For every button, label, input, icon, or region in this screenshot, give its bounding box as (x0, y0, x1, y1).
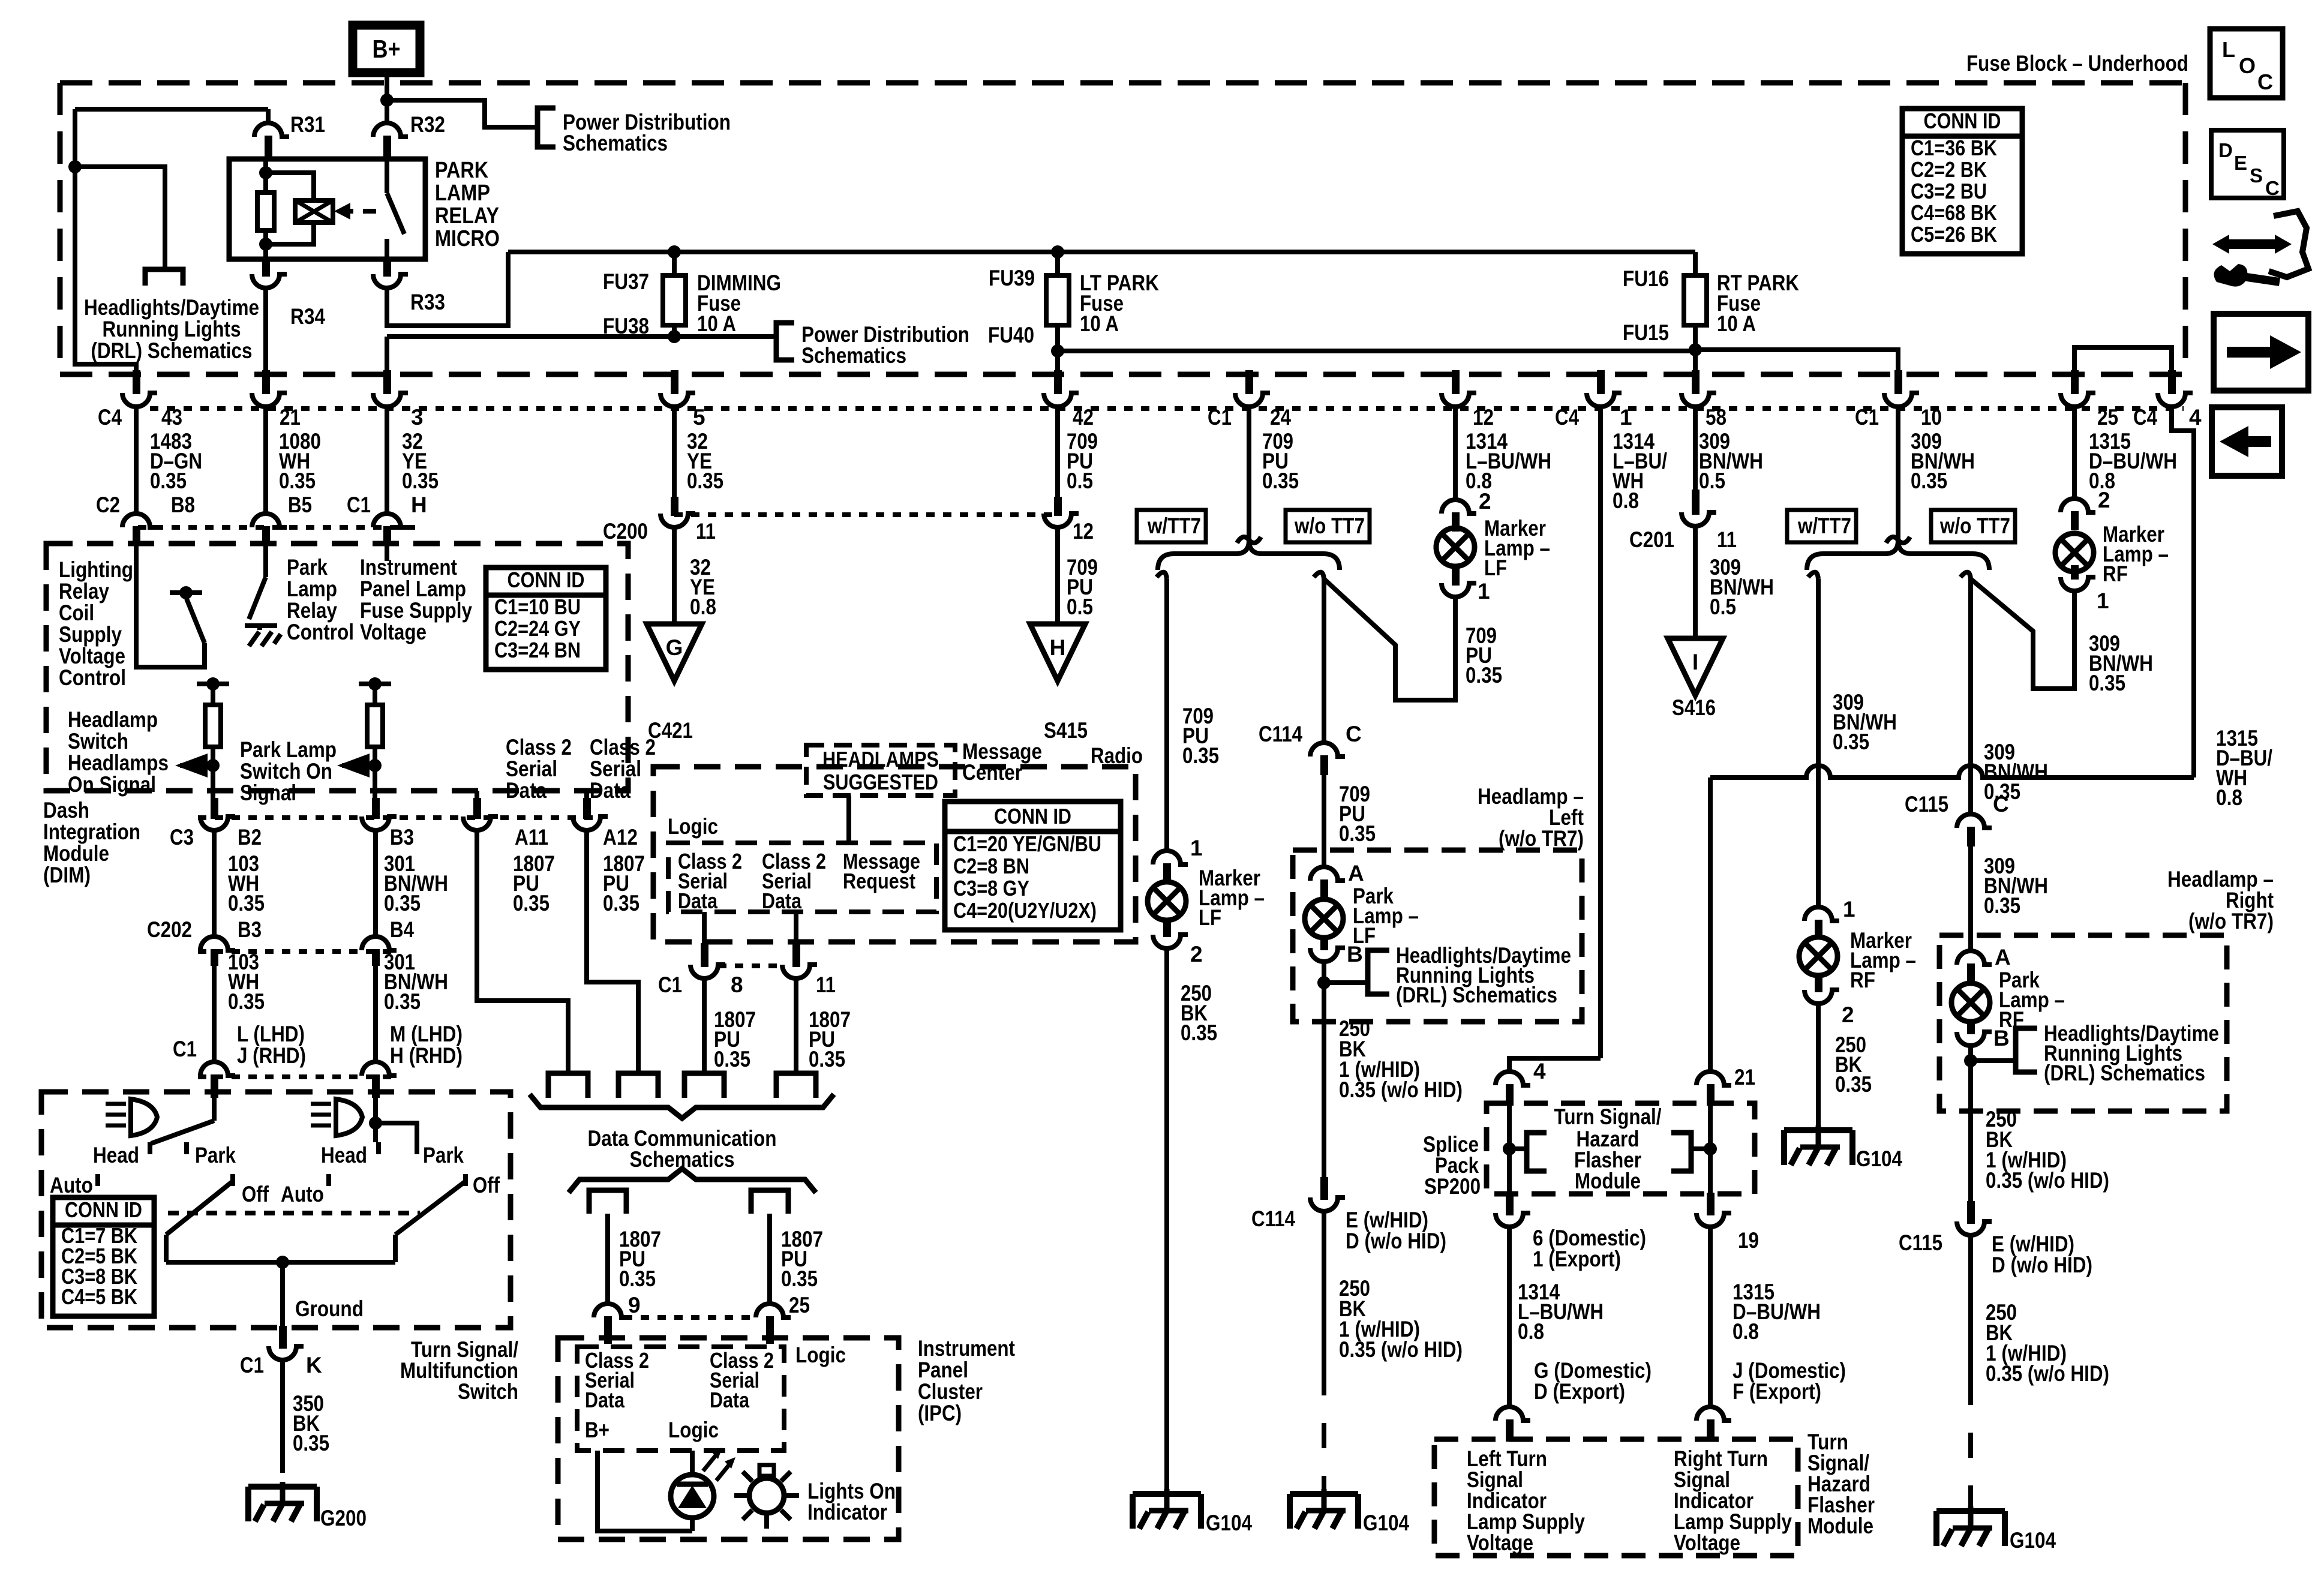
svg-text:2: 2 (1842, 1002, 1854, 1027)
contact park 1 (187, 1142, 236, 1167)
svg-text:B8: B8 (171, 493, 195, 517)
svg-text:19: 19 (1738, 1228, 1759, 1253)
label dimming fuse (697, 271, 781, 336)
branch hook woTT7 left (1314, 572, 1324, 579)
connector C115-E (1899, 1201, 1992, 1255)
connector dash c202-row (198, 949, 396, 954)
relay resistor (257, 159, 274, 259)
svg-text:Head: Head (321, 1143, 367, 1167)
wire FU38 output bus (387, 330, 776, 343)
svg-text:Headlamps: Headlamps (68, 751, 169, 775)
label woTT7 left (1286, 510, 1370, 542)
svg-text:Data: Data (678, 888, 718, 913)
svg-text:0.35 (w/o HID): 0.35 (w/o HID) (1339, 1337, 1463, 1362)
svg-text:Voltage: Voltage (59, 644, 125, 668)
svg-text:9: 9 (628, 1293, 641, 1317)
lamp marker rf top (2055, 488, 2169, 613)
label C2 B8 (96, 493, 195, 517)
svg-text:C4=5 BK: C4=5 BK (61, 1284, 137, 1309)
svg-text:Serial: Serial (590, 757, 641, 781)
fuse block output connector x1124 (660, 370, 695, 407)
svg-text:1: 1 (1190, 836, 1203, 860)
svg-text:C1=10 BU: C1=10 BU (494, 595, 581, 619)
wire rt park output down (1693, 350, 1698, 374)
connector 12 (1044, 497, 1079, 527)
svg-text:C: C (2257, 70, 2273, 94)
svg-text:B: B (1993, 1026, 2010, 1050)
power symbol B+ (353, 25, 420, 73)
label wTT7 left (1137, 510, 1206, 542)
svg-text:0.35: 0.35 (1262, 469, 1299, 493)
wire 1807 pu 25 (770, 1214, 823, 1317)
svg-text:H: H (1050, 635, 1066, 660)
icon box DESC (2211, 130, 2284, 199)
svg-text:C2=2 BK: C2=2 BK (1911, 157, 1987, 182)
headlamp icon 2 (311, 1099, 362, 1136)
connector C114-E (1251, 1177, 1345, 1231)
svg-text:Park: Park (195, 1143, 236, 1167)
off-page bracket power distribution (538, 108, 556, 147)
svg-text:3: 3 (411, 405, 424, 430)
svg-text:0.35: 0.35 (293, 1431, 329, 1455)
wire 250 bk right dashed (1968, 1380, 1973, 1511)
relay coil (266, 173, 350, 244)
svg-text:Panel: Panel (918, 1358, 968, 1382)
svg-text:LF: LF (1484, 556, 1507, 580)
connector marker rf 1 (1804, 897, 1855, 937)
label 21 (280, 405, 301, 430)
svg-text:Instrument: Instrument (360, 555, 457, 580)
fuse block output connector x1763 (1044, 370, 1079, 407)
svg-text:C3: C3 (170, 825, 194, 849)
connector ipc 25 (756, 1304, 791, 1344)
connector A11 (463, 798, 498, 830)
svg-text:Module: Module (43, 841, 109, 866)
wire woTT7 c115 right (1971, 579, 2048, 814)
label C200 11 (603, 519, 716, 544)
svg-text:0.35: 0.35 (809, 1047, 845, 1071)
svg-text:Lamp: Lamp (287, 577, 337, 601)
bracket ipc 25 (751, 1190, 788, 1214)
svg-text:L (LHD): L (LHD) (237, 1022, 305, 1046)
svg-text:G: G (666, 635, 683, 660)
icon box LOC (2210, 29, 2283, 98)
svg-text:0.8: 0.8 (2216, 785, 2242, 810)
wire dimming output down (385, 337, 389, 374)
svg-text:2: 2 (1190, 942, 1203, 966)
connector park rf A (1957, 945, 2011, 983)
svg-text:Center: Center (962, 760, 1022, 785)
svg-text:0.35: 0.35 (1466, 663, 1502, 688)
contact park 2 (417, 1142, 464, 1167)
svg-text:C200: C200 (603, 519, 648, 544)
svg-text:C: C (1993, 792, 2009, 816)
arrow park lamp switch signal (337, 754, 375, 778)
svg-text:D (w/o HID): D (w/o HID) (1346, 1229, 1446, 1253)
arrow headlamp switch signal (175, 754, 213, 778)
label headlamp right (2167, 867, 2274, 933)
wire 1807 pu radio11 (796, 978, 851, 1073)
svg-text:Auto: Auto (281, 1182, 324, 1206)
svg-text:0.35: 0.35 (1181, 1020, 1217, 1045)
svg-text:Signal: Signal (240, 781, 296, 805)
connector dash ipc row (624, 1315, 756, 1320)
label FU38 (603, 314, 649, 338)
svg-text:G104: G104 (1363, 1511, 1409, 1535)
wire 1315 dbuwh flasher (1710, 1227, 1821, 1407)
wire c115 to park rf (1971, 829, 2048, 951)
option tilde left (1237, 537, 1261, 543)
label 25 C4 (2097, 405, 2157, 430)
split bus left (1158, 541, 1340, 570)
label M LHD H RHD (390, 1022, 463, 1068)
wire bridge pin25 to pin4 (2074, 347, 2172, 374)
svg-text:0.35: 0.35 (228, 989, 265, 1014)
label C1 row (173, 1037, 197, 1061)
svg-text:Schematics: Schematics (801, 343, 906, 368)
connector splice 21 (1697, 1065, 1755, 1106)
svg-text:B5: B5 (288, 493, 312, 517)
dashed headlamp switch line (168, 1211, 420, 1215)
connector splice out 19 (1697, 1193, 1759, 1253)
svg-text:Switch On: Switch On (240, 759, 332, 784)
svg-text:Fuse Block – Underhood: Fuse Block – Underhood (1966, 51, 2188, 76)
svg-text:24: 24 (1270, 405, 1291, 430)
svg-text:C1: C1 (347, 493, 371, 517)
label e whid right (1992, 1232, 2092, 1277)
resistor park lamp pullup (359, 677, 391, 804)
off-page bracket power dist 2 (776, 323, 794, 360)
svg-text:S415: S415 (1044, 718, 1088, 743)
svg-text:0.8: 0.8 (1733, 1319, 1759, 1344)
svg-text:FU39: FU39 (989, 266, 1035, 290)
svg-text:C1=20 YE/GN/BU: C1=20 YE/GN/BU (953, 831, 1101, 856)
fuse FU16 rt park (1684, 252, 1707, 350)
svg-text:MICRO: MICRO (435, 226, 500, 251)
svg-text:w/o TT7: w/o TT7 (1294, 514, 1365, 538)
label splice pack sp200 (1423, 1132, 1481, 1199)
svg-text:10 A: 10 A (697, 311, 736, 336)
contact auto left (50, 1173, 98, 1197)
svg-text:0.35 (w/o HID): 0.35 (w/o HID) (1339, 1077, 1463, 1102)
wire headlamps to logic (846, 795, 851, 843)
svg-text:A11: A11 (515, 825, 548, 849)
svg-text:8: 8 (731, 972, 743, 997)
label C1 10 (1855, 405, 1942, 430)
wire B8 internal (136, 543, 205, 667)
headlamps suggested box (806, 745, 955, 795)
svg-text:C115: C115 (1905, 792, 1948, 816)
wire H internal (385, 543, 389, 561)
svg-text:0.8: 0.8 (690, 595, 716, 619)
connector splice 4 (1496, 1059, 1546, 1106)
svg-text:Dash: Dash (43, 798, 89, 822)
wire 1315 d-bu/wh (2074, 407, 2177, 499)
contact off right (466, 1173, 500, 1197)
label Fuse Block - Underhood (1966, 51, 2188, 76)
svg-text:Switch: Switch (458, 1379, 518, 1404)
label class2 ipc 2 (710, 1348, 774, 1412)
svg-text:Running Lights: Running Lights (103, 317, 241, 341)
svg-text:Auto: Auto (50, 1173, 93, 1197)
icon box arrow right (2214, 314, 2308, 391)
switch arm off (395, 1181, 466, 1262)
label FU40 (988, 323, 1034, 347)
off-page bracket DRL (145, 269, 183, 286)
svg-text:C1: C1 (658, 972, 682, 997)
label drl right (2044, 1021, 2219, 1085)
splice bracket left (1527, 1133, 1547, 1171)
svg-text:C4: C4 (1555, 405, 1579, 430)
svg-text:11: 11 (816, 972, 836, 997)
lamp park rf (1951, 968, 2065, 1032)
switch park lamp relay control (245, 577, 281, 646)
conn id table dim (486, 568, 606, 670)
svg-text:Ground: Ground (295, 1296, 364, 1321)
svg-text:C4: C4 (98, 405, 122, 430)
contact auto mid (326, 1174, 331, 1186)
svg-text:Schematics: Schematics (563, 131, 668, 155)
svg-text:F (Export): F (Export) (1733, 1379, 1821, 1404)
fuse block output connector x2826 (1682, 370, 1716, 407)
underbrace data comm (530, 1094, 834, 1118)
contact head 1 (93, 1142, 150, 1167)
wire wTT7 branch left (1167, 579, 1219, 851)
svg-text:0.35: 0.35 (402, 469, 439, 493)
connector marker lf 2 (1153, 920, 1203, 966)
svg-text:Headlights/Daytime: Headlights/Daytime (84, 295, 259, 320)
svg-text:(w/o TR7): (w/o TR7) (1499, 826, 1584, 851)
wire B5 internal (263, 543, 268, 577)
svg-text:C: C (1346, 722, 1362, 746)
connector splice out 6 (1496, 1193, 1646, 1271)
wire switch common (166, 1256, 395, 1269)
label woTT7 right (1931, 510, 2015, 542)
connector C201-11 (1682, 490, 1716, 526)
svg-text:C4=68 BK: C4=68 BK (1911, 200, 1997, 225)
svg-text:Head: Head (93, 1143, 139, 1167)
svg-text:FU15: FU15 (1623, 320, 1669, 345)
svg-text:Module: Module (1575, 1169, 1641, 1193)
connector dash b-row (138, 525, 420, 530)
led lights on (671, 1448, 735, 1518)
connector R32 (373, 112, 445, 161)
label B5 (288, 493, 312, 517)
svg-text:1: 1 (2097, 589, 2109, 613)
label L LHD J RHD (237, 1022, 306, 1068)
svg-text:Park Lamp: Park Lamp (240, 737, 337, 762)
svg-text:LAMP: LAMP (435, 181, 490, 206)
svg-text:D: D (2218, 139, 2233, 161)
wire 103 wh 2 (214, 950, 265, 1062)
wire woTT7 zigzag right (1971, 579, 2074, 689)
bracket a12 (618, 1073, 658, 1098)
instrument panel cluster box (558, 1338, 899, 1539)
branch hook woTT7 right (1960, 572, 1971, 579)
lamp marker lf left (1148, 866, 1265, 930)
wire c114 to park lamp (1322, 758, 1326, 867)
svg-text:LF: LF (1199, 905, 1221, 930)
svg-text:B+: B+ (585, 1418, 609, 1442)
wire 32 ye (387, 407, 439, 514)
icon box arrow left (2212, 407, 2282, 476)
svg-text:L: L (2222, 37, 2235, 62)
svg-text:S: S (2250, 164, 2263, 187)
label park lamp relay control (287, 555, 354, 644)
wire park branch 2 (376, 1123, 417, 1142)
label 4 pin (2189, 405, 2202, 430)
fuse block output connector x443 (252, 370, 287, 407)
label j domestic (1733, 1358, 1846, 1404)
svg-text:B4: B4 (390, 917, 414, 942)
label FU37 (603, 269, 649, 294)
label turn signal hazard flasher module 2 (1807, 1430, 1875, 1538)
wire to power distribution (387, 100, 538, 127)
svg-text:On Signal: On Signal (68, 772, 156, 797)
label C202 B3 B4 (147, 917, 414, 942)
svg-text:Data: Data (762, 888, 802, 913)
svg-text:Supply: Supply (59, 622, 122, 647)
connector R33 (373, 258, 445, 314)
wire 709 pu c1-24 (1249, 407, 1299, 544)
svg-text:FU16: FU16 (1623, 266, 1669, 291)
svg-text:Logic: Logic (795, 1343, 846, 1367)
svg-text:C2=24 GY: C2=24 GY (494, 616, 581, 641)
wire 103 wh (214, 830, 265, 936)
connector flasher left (1496, 1407, 1530, 1442)
svg-text:0.35: 0.35 (687, 469, 723, 493)
label right turn signal (1674, 1446, 1792, 1555)
wire radio pin11 stub (794, 912, 798, 951)
wire 301 bn/wh 2 (376, 950, 448, 1062)
lamp marker rf left (1799, 928, 1916, 992)
svg-text:CONN ID: CONN ID (994, 804, 1071, 828)
connector B8 (122, 514, 157, 543)
svg-text:Lighting: Lighting (59, 557, 133, 582)
svg-text:w/TT7: w/TT7 (1147, 514, 1201, 538)
svg-text:G104: G104 (1856, 1146, 1902, 1171)
svg-text:G104: G104 (1206, 1511, 1252, 1535)
fuse block output connector x2668 (1587, 370, 1622, 407)
svg-text:Request: Request (843, 869, 915, 893)
svg-text:Voltage: Voltage (1674, 1530, 1740, 1555)
fuse block - underhood dashed box (60, 83, 2185, 374)
wire 301 bn/wh (376, 830, 448, 936)
branch hook wTT7 right (1808, 572, 1818, 579)
svg-text:Fuse Supply: Fuse Supply (360, 598, 472, 623)
svg-text:R34: R34 (290, 304, 325, 329)
label 58 (1706, 405, 1727, 430)
label headlamp left (1478, 784, 1584, 851)
svg-text:0.35: 0.35 (384, 891, 421, 915)
label e whid left (1346, 1208, 1446, 1253)
label drl left (1396, 943, 1571, 1007)
split bus right (1807, 541, 1989, 570)
splice pack box (1487, 1103, 1755, 1194)
svg-text:1: 1 (1478, 579, 1490, 604)
wire 709 pu fu40 (1058, 407, 1098, 498)
svg-text:C4: C4 (2133, 405, 2157, 430)
label headlights DRL schematics (84, 295, 259, 363)
connector B5 (252, 514, 287, 543)
label data communication schematics (588, 1126, 777, 1172)
label power distribution schematics (563, 110, 731, 155)
wire 1807 pu 9 (608, 1214, 661, 1317)
svg-text:Coil: Coil (59, 601, 94, 625)
connector H (373, 514, 408, 543)
svg-text:0.35: 0.35 (1182, 743, 1219, 768)
svg-text:58: 58 (1706, 405, 1727, 430)
svg-text:Relay: Relay (287, 598, 337, 623)
fuse block output connector x3620 (2158, 370, 2193, 407)
svg-text:Relay: Relay (59, 579, 109, 604)
label C4 43 (98, 405, 182, 430)
splice left wire (1503, 1106, 1527, 1194)
svg-text:Headlamp: Headlamp (68, 707, 158, 732)
svg-text:H (RHD): H (RHD) (390, 1043, 463, 1068)
label lt park fuse (1080, 271, 1159, 336)
svg-text:Integration: Integration (43, 819, 140, 844)
connector R31 (254, 112, 325, 161)
label off auto (242, 1182, 324, 1206)
ground G104 marker lf (1133, 1489, 1252, 1535)
headlamp icon 1 (106, 1099, 157, 1136)
wire 1315 right edge (2172, 407, 2194, 778)
svg-text:FU40: FU40 (988, 323, 1034, 347)
svg-text:0.5: 0.5 (1699, 469, 1725, 493)
svg-text:0.35: 0.35 (619, 1266, 656, 1291)
svg-text:(IPC): (IPC) (918, 1401, 962, 1425)
svg-text:B3: B3 (390, 825, 414, 849)
label 5 (693, 405, 705, 430)
fuse block output connector x645 (373, 370, 408, 407)
wire 250 bk left (1324, 1016, 1463, 1177)
wire ground internal (283, 1262, 364, 1328)
svg-text:5: 5 (693, 405, 705, 430)
svg-text:25: 25 (789, 1293, 810, 1317)
label 3 (411, 405, 424, 430)
label b+ logic (585, 1418, 719, 1442)
svg-text:J (RHD): J (RHD) (237, 1043, 306, 1068)
label rt park fuse (1717, 271, 1799, 336)
svg-text:25: 25 (2097, 405, 2118, 430)
ground G104 right hl (1936, 1506, 2056, 1553)
label C1 24 (1208, 405, 1291, 430)
svg-text:2: 2 (2098, 488, 2110, 512)
label class2 radio 2 (762, 849, 826, 913)
drl bracket left (1324, 950, 1389, 994)
switch arm head 1 (151, 1121, 214, 1143)
svg-text:43: 43 (161, 405, 182, 430)
label FU39 (989, 266, 1035, 290)
label headlamp switch on signal (68, 707, 169, 797)
label class2 ipc 1 (585, 1348, 649, 1412)
connector C115-C (1905, 792, 2009, 846)
svg-text:C1: C1 (240, 1353, 264, 1377)
wire 709 pu 0.5 down (1058, 527, 1098, 624)
label message request (843, 849, 920, 893)
radio logic box (668, 814, 936, 912)
svg-text:1: 1 (1843, 897, 1855, 921)
connector C3-B2 (200, 798, 235, 830)
label lighting relay coil (59, 557, 133, 690)
svg-text:FU37: FU37 (603, 269, 649, 294)
svg-text:Cluster: Cluster (918, 1379, 983, 1404)
wire left edge down (68, 109, 136, 374)
svg-text:RELAY: RELAY (435, 203, 499, 229)
wire bus2 1315 (1710, 726, 2272, 810)
svg-text:C201: C201 (1629, 527, 1674, 552)
